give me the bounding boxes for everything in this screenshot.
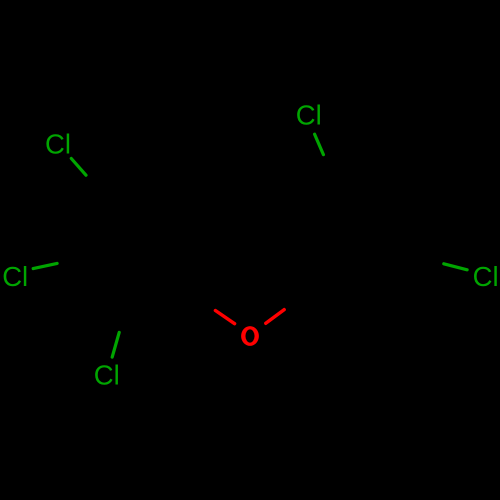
bond C-O left (half, red) [215, 311, 234, 324]
bond Cl4-C (half, green) top-right [315, 134, 324, 154]
atom label O (furan oxygen, red ring glyph) [241, 326, 259, 346]
svg-text:Cl: Cl [94, 360, 120, 391]
bond C-O right (half, red) [266, 310, 284, 324]
svg-text:Cl: Cl [45, 128, 71, 159]
svg-text:Cl: Cl [473, 261, 499, 292]
bond Cl1-C (half, green) top-left [71, 159, 86, 176]
svg-text:Cl: Cl [296, 100, 322, 131]
bond Cl5-C (half, green) right edge [444, 264, 467, 270]
bond Cl2-C (half, green) left edge [33, 263, 57, 268]
bond Cl3-C (half, green) bottom-left [112, 332, 119, 357]
svg-text:Cl: Cl [2, 261, 28, 292]
